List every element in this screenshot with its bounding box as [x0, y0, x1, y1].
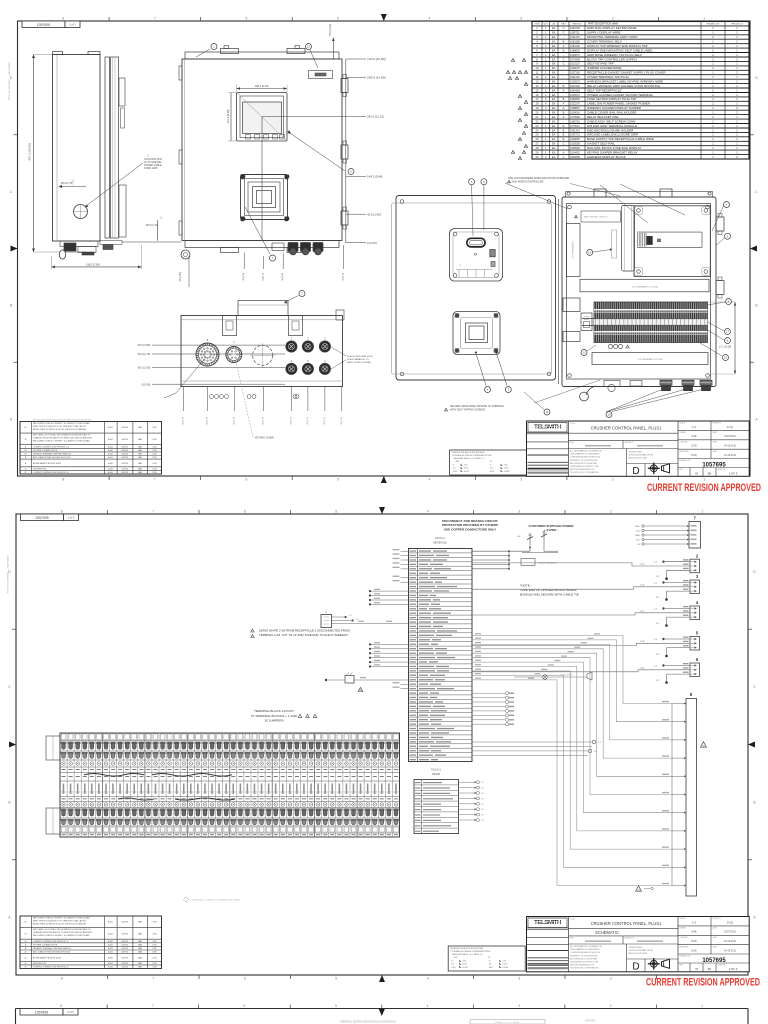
svg-text:REV 1 AND 1-16 PLUS ALL REV UP: REV 1 AND 1-16 PLUS ALL REV UPDATE ECN 1… [33, 928, 91, 931]
sheet border frame [16, 514, 748, 975]
svg-text:5: 5 [337, 478, 339, 482]
svg-text:SHEET NO: SHEET NO [718, 965, 727, 967]
svg-text:2: 2 [610, 977, 612, 981]
svg-text:04/19/11: 04/19/11 [122, 963, 129, 965]
svg-text:1013137: 1013137 [570, 63, 580, 66]
svg-text:3-3: 3-3 [481, 793, 484, 795]
svg-text:24 [C]: 24 [C] [727, 921, 734, 924]
svg-text:04/19/11: 04/19/11 [122, 463, 129, 465]
svg-text:1088853: 1088853 [570, 49, 580, 52]
svg-text:88 [3.5]: 88 [3.5] [206, 417, 208, 425]
microcontroller [634, 206, 710, 277]
svg-text:04/19/11: 04/19/11 [122, 967, 129, 969]
svg-text:RELAY BRACKET RAIL: RELAY BRACKET RAIL [587, 115, 619, 119]
svg-text:CORRECT 4 WIRES. IN 36 PER ECN: CORRECT 4 WIRES. IN 36 PER ECN 1-4 [33, 967, 68, 969]
horizontal wireway lower [592, 353, 708, 365]
HMI width dimension 198.2 [4.33] [237, 84, 288, 92]
centering arrow right [748, 742, 755, 748]
svg-text:ANGULAR: MACH ± 0.5° BEND ±: ANGULAR: MACH ± 0.5° BEND ± 2° [452, 953, 483, 956]
svg-text:1082880: 1082880 [570, 98, 580, 101]
svg-text:6: 6 [244, 510, 246, 514]
svg-text:CAN+: CAN+ [635, 525, 641, 528]
svg-text:C: C [563, 62, 565, 66]
svg-text:2: 2 [610, 1004, 612, 1008]
title block [527, 421, 750, 476]
svg-text:RELOCATED CONN 4-6. MOVED 7 &: RELOCATED CONN 4-6. MOVED 7 & 8. ADDED 2… [33, 934, 90, 937]
svg-text:SUPPLY DISPLAY WIRE: SUPPLY DISPLAY WIRE [587, 31, 620, 35]
svg-text:A: A [563, 102, 565, 106]
svg-text:PROPERTY OF TELSMITH, INC.: PROPERTY OF TELSMITH, INC. [570, 955, 599, 957]
svg-text:WIRE. PER ECN 10456789 TO 6 CO: WIRE. PER ECN 10456789 TO 6 COMPLETE TOT… [33, 920, 87, 923]
svg-text:UPDATED TERMINAL STRIP AND WIR: UPDATED TERMINAL STRIP AND WIRE NO [33, 947, 72, 950]
svg-text:DJW: DJW [153, 450, 157, 452]
connector 5 [690, 637, 700, 651]
wire 2-15 [472, 563, 690, 566]
svg-text:LEAVE WHITE 2-18 FROM RECEPTAC: LEAVE WHITE 2-18 FROM RECEPTACLE 1 DISCO… [259, 629, 350, 633]
note: disconnect and branch circuit protection [442, 519, 498, 531]
svg-text:1037265: 1037265 [570, 72, 580, 75]
svg-text:MD390-018: MD390-018 [433, 541, 447, 545]
svg-text:B: B [563, 97, 565, 101]
TELSMITH logo [528, 918, 567, 928]
svg-text:FUSE KEYPAD DISPLAY PLUG TAP: FUSE KEYPAD DISPLAY PLUG TAP [587, 97, 636, 101]
leaders below front view [180, 245, 345, 287]
svg-text:5: 5 [335, 1004, 337, 1008]
svg-text:A-601: A-601 [108, 462, 113, 465]
svg-text:01: 01 [24, 963, 26, 965]
svg-text:B: B [563, 137, 565, 141]
note: use lockwashers when mounting subpanel and microcontroller [508, 177, 621, 196]
ground warning triangle 4A [701, 742, 707, 747]
svg-text:6: 6 [526, 72, 527, 74]
svg-text:10910 INDUSTRIAL DRIVE: 10910 INDUSTRIAL DRIVE [629, 454, 654, 457]
TELSMITH logo [528, 423, 567, 433]
svg-text:8: 8 [62, 17, 64, 21]
svg-text:54 [2.1]: 54 [2.1] [263, 273, 265, 281]
svg-text:NOTE: B SIZE PRINT — HALF SCAL: NOTE: B SIZE PRINT — HALF SCALE [7, 554, 10, 593]
svg-text:457.2 [18.00]: 457.2 [18.00] [28, 143, 32, 161]
wire 2-30 [472, 670, 690, 672]
svg-text:4: 4 [514, 72, 515, 74]
svg-text:-: - [563, 81, 564, 84]
svg-text:25.0 [1.00]: 25.0 [1.00] [329, 24, 332, 36]
svg-text:04/19/11: 04/19/11 [122, 952, 129, 954]
svg-text:D: D [632, 962, 639, 973]
svg-text:SIMILAR TO: SIMILAR TO [625, 937, 636, 940]
svg-text:88 [3.5]: 88 [3.5] [262, 417, 264, 425]
svg-text:TERMINAL LOCATED IN CRUSHER SK: TERMINAL LOCATED IN CRUSHER SKID BASE [192, 899, 241, 902]
svg-text:2: 2 [524, 60, 525, 62]
svg-text:1033875: 1033875 [570, 54, 580, 57]
svg-text:AND MICROCONTROLLER: AND MICROCONTROLLER [512, 181, 544, 184]
svg-text:68.6 [2.70]: 68.6 [2.70] [146, 224, 158, 227]
label: place unused plugs parallel to back of enclosure [331, 347, 373, 369]
svg-text:A-601: A-601 [108, 453, 113, 456]
svg-text:±.010: ±.010 [502, 964, 507, 966]
terminal strip height dimension 171.1 [6.38] [709, 302, 736, 374]
svg-text:MOUNTING TERMINAL ASSY CONN: MOUNTING TERMINAL ASSY CONN [587, 35, 637, 39]
wire 2-29 [472, 643, 690, 645]
svg-text:1: 1 [703, 478, 705, 482]
svg-text:DJW: DJW [153, 967, 157, 969]
svg-text:A-601: A-601 [108, 438, 113, 441]
enclosure hinge gap line [558, 199, 560, 384]
DP200 output wires [459, 781, 484, 822]
leader to wireway pad balloon 15 [587, 230, 617, 258]
front view right reference line [345, 59, 347, 243]
svg-text:1058887: 1058887 [570, 107, 580, 110]
svg-text:MEQUON, WI 53092: MEQUON, WI 53092 [629, 458, 649, 460]
svg-text:±.03: ±.03 [504, 465, 508, 467]
balloon 21 top right [306, 44, 319, 69]
keypad center leader down [245, 207, 276, 261]
svg-text:EA: EA [552, 142, 556, 146]
power supply wires [472, 740, 602, 755]
svg-text:GASKET SELF RAIL: GASKET SELF RAIL [587, 142, 615, 146]
svg-text:3: 3 [508, 72, 509, 74]
svg-text:A-601: A-601 [108, 940, 113, 943]
note: secure large wire tie base to subpanel [445, 380, 601, 412]
centering arrow top [379, 507, 385, 514]
svg-text:(414.0 [16.30]): (414.0 [16.30]) [367, 57, 386, 61]
svg-text:A: A [563, 106, 565, 110]
HMI display cutout [237, 93, 288, 142]
svg-text:EA: EA [552, 128, 556, 132]
terminal strip leaders right [700, 299, 732, 361]
zone tick marks [14, 17, 755, 480]
svg-text:3-6: 3-6 [481, 809, 484, 811]
svg-text:1057695: 1057695 [702, 463, 726, 469]
connector 6 [690, 663, 700, 677]
membrane keypad cutout [241, 175, 290, 222]
svg-text:1: 1 [701, 1004, 703, 1008]
svg-text:15: 15 [588, 251, 592, 255]
svg-text:1088783: 1088783 [570, 120, 580, 123]
svg-text:2-16: 2-16 [640, 584, 645, 586]
svg-text:TAPE END OF UNUSED BLACK WIRES: TAPE END OF UNUSED BLACK WIRES; [520, 588, 577, 592]
svg-text:CHECKED: CHECKED [680, 937, 689, 939]
svg-text:2: 2 [610, 510, 612, 514]
svg-text:1: 1 [701, 510, 703, 514]
svg-text:.XXX: .XXX [488, 967, 493, 969]
svg-text:04/19/11: 04/19/11 [122, 427, 129, 429]
latch right edge 3 [341, 211, 348, 225]
bottom view left dimension leaders [138, 343, 285, 386]
logo block stripes [528, 951, 569, 969]
svg-text:-: - [563, 67, 564, 70]
svg-text:TELSMITH, INC. IS PROHIBITED.: TELSMITH, INC. IS PROHIBITED. [570, 968, 600, 970]
svg-text:13: 13 [724, 356, 728, 360]
svg-text:04/19/11: 04/19/11 [122, 945, 129, 947]
svg-text:TITLE: TITLE [570, 423, 576, 425]
svg-text:GRIP RAIL DISPLAY KEYPAD BASE: GRIP RAIL DISPLAY KEYPAD BASE [587, 26, 637, 30]
receptacle 1 on bottom [286, 338, 297, 352]
svg-text:1057695: 1057695 [37, 23, 50, 27]
svg-text:10: 10 [607, 413, 611, 417]
svg-text:1084148: 1084148 [570, 45, 580, 48]
svg-text:-: - [563, 120, 564, 123]
svg-text:WIRE. PER ECN 10456789 TO 6 CO: WIRE. PER ECN 10456789 TO 6 COMPLETE TOT… [33, 425, 87, 428]
svg-text:96 [3.8]: 96 [3.8] [282, 273, 284, 281]
svg-text:CORRECT 4 WIRES. IN 36 PER ECN: CORRECT 4 WIRES. IN 36 PER ECN 1-4 [33, 446, 68, 448]
centering arrow bottom [381, 476, 387, 483]
dimension leader 148.3 [5.84] [346, 174, 383, 178]
svg-text:HARNESS DISPLAY BLOCK: HARNESS DISPLAY BLOCK [587, 155, 626, 159]
svg-text:88 [3.5]: 88 [3.5] [234, 417, 236, 425]
svg-text:3: 3 [520, 108, 521, 110]
sheet 3 faint heading texts [340, 1020, 596, 1024]
svg-text:7: 7 [154, 478, 156, 482]
balloon 1 leader on handle [284, 291, 305, 304]
centering arrow left [9, 742, 16, 748]
grease fitting circle [74, 205, 88, 219]
svg-text:24 [C]: 24 [C] [727, 426, 734, 429]
svg-text:04/19/11: 04/19/11 [122, 469, 129, 471]
svg-text:DJW: DJW [153, 957, 157, 959]
svg-text:EA: EA [552, 124, 556, 128]
svg-text:TELSMITH: TELSMITH [534, 425, 561, 431]
svg-text:6: 6 [245, 478, 247, 482]
svg-text:1022279: 1022279 [570, 103, 580, 106]
svg-text:A-601: A-601 [108, 471, 113, 474]
svg-text:A-601: A-601 [108, 947, 113, 950]
svg-text:01: 01 [24, 957, 26, 959]
dimension 68.6 [2.70] with leader to front view [122, 215, 182, 242]
svg-text:A-601: A-601 [108, 962, 113, 965]
receptacle 6 on bottom [319, 360, 330, 374]
third angle projection symbol [648, 463, 670, 475]
svg-text:1057695: 1057695 [702, 958, 726, 964]
svg-text:CORRECT 4 WIRES. IN 36 PER ECN: CORRECT 4 WIRES. IN 36 PER ECN 1-4 [33, 472, 68, 474]
side view of enclosure [53, 52, 127, 242]
zone letters and numbers [8, 510, 756, 981]
connector 2 [690, 559, 700, 573]
svg-text:04/19/11: 04/19/11 [122, 933, 129, 935]
svg-text:JUMPER HOLDER BASE: JUMPER HOLDER BASE [587, 66, 622, 70]
open door (inside of door) [392, 196, 556, 381]
svg-text:NO WIRE 1-18 AND ROUTE: NO WIRE 1-18 AND ROUTE [33, 944, 58, 947]
lamp/horn symbols mid page [514, 672, 592, 680]
svg-text:8: 8 [60, 1004, 62, 1008]
balloon 1 top left [196, 44, 217, 58]
svg-text:03: 03 [24, 454, 26, 456]
svg-text:10910 INDUSTRIAL DRIVE: 10910 INDUSTRIAL DRIVE [629, 949, 654, 952]
svg-text:01: 01 [24, 967, 26, 969]
svg-text:04/19/11: 04/19/11 [122, 472, 129, 474]
svg-text:NOTE: B SIZE PRINT — HALF SCAL: NOTE: B SIZE PRINT — HALF SCALE [8, 61, 11, 100]
customer power switch symbols [517, 529, 558, 553]
svg-text:7: 7 [152, 977, 154, 981]
svg-text:9: 9 [526, 84, 527, 86]
svg-text:RELOCATED CONN 4-6. MOVED 7 &: RELOCATED CONN 4-6. MOVED 7 & 8. ADDED 2… [33, 422, 90, 425]
svg-text:21: 21 [307, 45, 311, 49]
svg-text:±0.127: ±0.127 [464, 471, 470, 473]
connector 4 [690, 606, 700, 620]
svg-text:1 of 3: 1 of 3 [69, 23, 76, 27]
svg-text:04/19/11: 04/19/11 [122, 446, 129, 448]
svg-text:04-19-2011: 04-19-2011 [724, 940, 737, 943]
svg-text:88 [3.5]: 88 [3.5] [341, 417, 343, 425]
svg-text:A: A [563, 88, 565, 92]
svg-text:BN: BN [708, 967, 712, 971]
svg-text:04/19/11: 04/19/11 [122, 450, 129, 452]
terminal block layout heading [251, 709, 317, 723]
svg-text:1000182: 1000182 [570, 85, 580, 88]
svg-text:MM: MM [456, 461, 460, 463]
leader from HMI to dim 282.6 [262, 116, 346, 118]
svg-text:EA: EA [552, 133, 556, 137]
svg-text:1: 1 [520, 96, 521, 98]
svg-text:1=2: 1=2 [692, 921, 697, 924]
PLUS+1 DP200 I/O table [414, 780, 459, 834]
svg-text:1042731: 1042731 [570, 134, 580, 137]
svg-text:ADDED WIRE 1-8 PER ECN 10-178.: ADDED WIRE 1-8 PER ECN 10-178. SHOW KIT … [33, 922, 87, 925]
svg-text:ALL INFORMATION CONTAINED ON: ALL INFORMATION CONTAINED ON [570, 945, 602, 948]
dimensions & tolerance block [448, 946, 525, 971]
svg-text:DRAWN: DRAWN [680, 431, 687, 434]
svg-text:4: 4 [429, 17, 431, 21]
DP200 module header [431, 768, 441, 777]
svg-text:2: 2 [612, 17, 614, 21]
svg-text:RELOCATED CONN 4-6. MOVED 7 &: RELOCATED CONN 4-6. MOVED 7 & 8. ADDED 2… [33, 917, 90, 920]
svg-text:DJW: DJW [153, 469, 157, 471]
svg-text:SCALE: SCALE [680, 917, 686, 920]
svg-text:88 [3.5]: 88 [3.5] [290, 417, 292, 425]
svg-text:WT (A) PG: WT (A) PG [713, 422, 722, 425]
svg-text:DJW: DJW [153, 963, 157, 965]
svg-text:ADD 10 AND MOVED GROUND 8 ECN: ADD 10 AND MOVED GROUND 8 ECN 104 [33, 951, 70, 954]
svg-text:-: - [563, 36, 564, 39]
svg-text:3: 3 [518, 510, 520, 514]
svg-text:0 [0.00]: 0 [0.00] [367, 241, 377, 245]
svg-text:EA: EA [552, 146, 556, 150]
svg-text:11: 11 [545, 410, 548, 414]
title block [527, 917, 750, 972]
svg-text:2: 2 [524, 152, 525, 154]
svg-text:DJW: DJW [153, 933, 157, 935]
svg-text:1041215: 1041215 [570, 36, 580, 39]
svg-text:47 TERMINAL BLOCKS + 1 GND: 47 TERMINAL BLOCKS + 1 GND [251, 714, 298, 718]
svg-text:ADD 10 AND MOVED GROUND 8 ECN: ADD 10 AND MOVED GROUND 8 ECN 104 [33, 456, 70, 459]
svg-text:X.XX: X.XX [453, 471, 458, 473]
svg-text:EA: EA [552, 57, 556, 61]
svg-text:SHEET NO: SHEET NO [718, 469, 727, 471]
zone tick marks [12, 510, 752, 979]
svg-text:3: 3 [520, 158, 521, 160]
svg-text:READ THIS FIRST USER DOC: READ THIS FIRST USER DOC [584, 216, 608, 219]
svg-text:01/07/2011: 01/07/2011 [724, 931, 736, 934]
svg-text:1058948: 1058948 [570, 147, 580, 150]
svg-text:SELF TAP RECEPTACLE: SELF TAP RECEPTACLE [587, 88, 621, 92]
svg-text:BACK OF ENCLOSURE: BACK OF ENCLOSURE [347, 361, 371, 364]
receptacle 1 symbol (left) [321, 610, 409, 628]
MD390-018 module header [433, 536, 447, 545]
svg-text:±0.127: ±0.127 [462, 967, 468, 969]
svg-text:38.1 [1.50]: 38.1 [1.50] [138, 366, 151, 370]
svg-text:NAB: NAB [692, 435, 697, 438]
svg-text:B: B [563, 133, 565, 137]
svg-text:TELSMITH,INC.: TELSMITH,INC. [629, 452, 644, 454]
svg-text:AS RELEASED PER ECN 10444: AS RELEASED PER ECN 10444 [33, 462, 61, 465]
svg-text:A-601: A-601 [108, 956, 113, 959]
svg-text:1057695: 1057695 [35, 516, 48, 520]
centering arrow bottom [379, 975, 385, 982]
svg-text:2: 2 [526, 102, 527, 104]
svg-text:5: 5 [520, 72, 521, 74]
svg-text:REV: REV [561, 24, 566, 26]
svg-text:1061222: 1061222 [570, 76, 580, 79]
svg-text:-: - [563, 72, 564, 75]
svg-text:7: 7 [510, 78, 511, 80]
svg-text:YB: YB [695, 472, 699, 476]
svg-text:WITH SELF-TAPPING SCREWS.: WITH SELF-TAPPING SCREWS. [450, 409, 486, 412]
svg-text:A-601: A-601 [108, 426, 113, 429]
svg-text:A-601: A-601 [108, 921, 113, 924]
svg-text:88 [3.5]: 88 [3.5] [324, 417, 326, 425]
sheet border frame [18, 21, 751, 476]
svg-text:SELF KEYPAD TAP: SELF KEYPAD TAP [587, 62, 614, 66]
svg-text:EA: EA [552, 137, 556, 141]
svg-text:ANGULAR: MACH ± 0.5° BEND ±: ANGULAR: MACH ± 0.5° BEND ± 2° [454, 457, 485, 460]
svg-text:6: 6 [244, 1004, 246, 1008]
svg-text:3: 3 [518, 1004, 520, 1008]
connector 3 [690, 580, 700, 594]
svg-text:USE COPPER CONDUCTORS ONLY: USE COPPER CONDUCTORS ONLY [444, 527, 497, 531]
svg-text:C: C [563, 57, 565, 61]
BOM parts table [532, 22, 749, 160]
svg-text:04/19/11: 04/19/11 [122, 922, 129, 924]
warning label card top-left of subpanel [581, 211, 621, 222]
svg-text:DJW: DJW [153, 446, 157, 448]
svg-text:CURRENT REVISION APPROVED: CURRENT REVISION APPROVED [647, 482, 761, 494]
svg-text:-: - [563, 76, 564, 79]
svg-text:DRAWN: DRAWN [680, 927, 687, 930]
svg-text:6: 6 [245, 17, 247, 21]
svg-text:1095711: 1095711 [570, 32, 580, 35]
svg-text:4: 4 [427, 1004, 429, 1008]
svg-text:1099075: 1099075 [570, 67, 580, 70]
svg-text:04-19-2011: 04-19-2011 [724, 445, 737, 448]
svg-text:SCHEMATIC: SCHEMATIC [595, 930, 619, 935]
svg-text:8: 8 [62, 478, 64, 482]
svg-text:CRUSHER CONTROL PANEL, PLUS1: CRUSHER CONTROL PANEL, PLUS1 [591, 921, 662, 926]
svg-text:PLATE PARALLEL TO: PLATE PARALLEL TO [347, 358, 369, 361]
svg-text:COVER TERMINAL TAP PLUG: COVER TERMINAL TAP PLUG [587, 75, 630, 79]
svg-text:TERMINAL 2-18. CUT TO 12' AND: TERMINAL 2-18. CUT TO 12' AND TAPE END. … [259, 633, 349, 637]
svg-text:DJW: DJW [153, 948, 157, 950]
svg-text:EA: EA [552, 119, 556, 123]
note: location for auto grease power cable cord grip [85, 153, 163, 208]
svg-text:CURRENT REVISION APPROVED: CURRENT REVISION APPROVED [646, 977, 760, 989]
svg-text:69.9 [2.75]: 69.9 [2.75] [138, 352, 151, 356]
svg-text:APPROVED: APPROVED [680, 945, 690, 948]
dimension leader (414.0 [16.30]) [346, 57, 386, 61]
keyway down label [236, 362, 274, 439]
svg-text:2-17: 2-17 [640, 610, 645, 612]
svg-text:DJW: DJW [153, 463, 157, 465]
svg-text:04/19/11: 04/19/11 [122, 439, 129, 441]
centering arrow top [381, 14, 387, 21]
front view of enclosure [182, 46, 342, 253]
svg-text:APPROVED: APPROVED [680, 450, 690, 453]
sheet ID table [22, 21, 65, 28]
svg-text:1075989: 1075989 [570, 116, 580, 119]
svg-text:1026865: 1026865 [570, 138, 580, 141]
svg-text:GRIP BASE WIREWAY TAP PLUG SEL: GRIP BASE WIREWAY TAP PLUG SELF [587, 53, 642, 57]
svg-text:CRUSHER CONTROL PANEL, PLUS1: CRUSHER CONTROL PANEL, PLUS1 [591, 425, 662, 430]
svg-text:MEQUON, WI 53092: MEQUON, WI 53092 [629, 953, 649, 955]
sheet 3 centering arrow [379, 1009, 385, 1016]
